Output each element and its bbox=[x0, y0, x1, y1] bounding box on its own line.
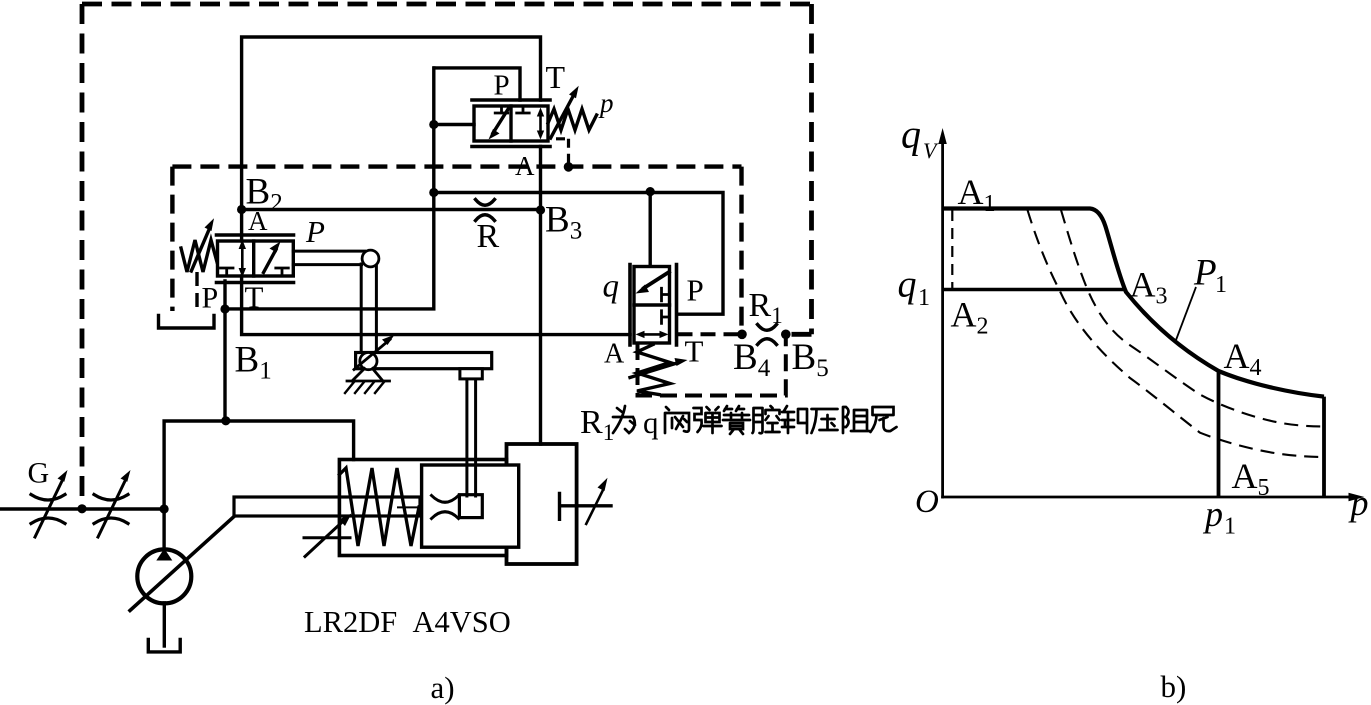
pin joint bbox=[362, 250, 379, 267]
svg-text:P: P bbox=[305, 214, 325, 249]
wire p-valve P loop bbox=[435, 68, 521, 125]
svg-text:LR2DF A4VSO: LR2DF A4VSO bbox=[304, 605, 511, 639]
node junction p-valve left port bbox=[429, 120, 438, 129]
p valve right cell arrow bbox=[539, 113, 542, 134]
svg-text:q: q bbox=[901, 112, 921, 157]
q valve body rails bbox=[630, 265, 677, 346]
p valve blocked ports bbox=[495, 106, 529, 113]
lever rod cap bbox=[460, 369, 482, 379]
throttle G2 bbox=[94, 495, 128, 524]
svg-text:q: q bbox=[603, 269, 620, 305]
svg-text:1: 1 bbox=[1215, 272, 1227, 298]
graph dashed vertical at A1 bbox=[951, 210, 953, 289]
q valve blocked ports bbox=[662, 288, 670, 323]
svg-text:P: P bbox=[494, 70, 510, 102]
p valve body rails bbox=[472, 100, 550, 147]
left valve right cell blocked port bbox=[276, 268, 289, 276]
p valve left cell relief arrow bbox=[493, 109, 509, 134]
p valve pilot dashed to drain line bbox=[556, 139, 569, 167]
graph flow-pressure curve solid bbox=[943, 209, 1324, 397]
mechanical rod from left valve to pin bbox=[293, 251, 364, 265]
p valve spring bbox=[548, 109, 597, 130]
svg-text:A: A bbox=[248, 206, 268, 236]
wire control line y192 to q valve P loop bbox=[434, 193, 723, 315]
wire G line bbox=[0, 507, 164, 510]
node B3 bbox=[536, 205, 545, 214]
q valve bottom cell arrow bbox=[641, 333, 663, 336]
node G line junction bbox=[160, 504, 169, 513]
tank under pump bbox=[148, 640, 180, 652]
piston position adjuster in right chamber bbox=[560, 494, 612, 520]
swashplate rod bbox=[234, 497, 420, 516]
left valve (stroke regulator) body rails bbox=[217, 235, 294, 283]
cylinder spring chamber bbox=[339, 460, 506, 556]
q valve spring adjust arrow bbox=[630, 363, 677, 378]
node junction p-valve drain on dashed line bbox=[564, 162, 574, 172]
node P port junction bbox=[220, 304, 229, 313]
hanzi ni bbox=[871, 407, 897, 432]
cylinder piston chamber bbox=[507, 444, 577, 564]
node junction control line bbox=[429, 188, 438, 197]
svg-text:O: O bbox=[915, 484, 939, 520]
wire riser to q valve top bbox=[649, 192, 652, 265]
pivot ground support bbox=[347, 369, 390, 382]
graph q1 horizontal line bbox=[943, 288, 1125, 292]
left valve box bbox=[218, 241, 294, 276]
svg-text:A: A bbox=[604, 339, 625, 370]
orifice R on B2-B3 line bbox=[476, 200, 495, 221]
node drain-G junction bbox=[77, 504, 86, 513]
svg-text:G: G bbox=[28, 457, 50, 490]
graph dashed curve lower bbox=[1061, 210, 1324, 427]
wire pilot P line to vertical riser bbox=[225, 68, 434, 309]
node B5 bbox=[781, 330, 791, 340]
hanzi tan bbox=[694, 407, 722, 433]
hanzi qiang bbox=[753, 406, 780, 433]
node B1 bottom junction bbox=[221, 416, 230, 425]
node junction q-valve riser bbox=[646, 187, 655, 196]
left valve left cell blocked port bbox=[221, 268, 234, 276]
left valve spring bbox=[181, 240, 217, 272]
svg-text:P: P bbox=[1193, 253, 1217, 294]
pump P1 variable displacement bbox=[137, 549, 191, 603]
wire left valve P port down to B1 node bbox=[223, 281, 226, 421]
left valve drain dashed to tank bbox=[195, 272, 198, 313]
p valve spring adjust arrow bbox=[551, 95, 574, 139]
left valve left cell arrow bbox=[241, 246, 244, 272]
hanzi zu bbox=[843, 407, 869, 433]
svg-text:T: T bbox=[685, 334, 704, 369]
dashed spring-cavity box of q valve bbox=[638, 338, 786, 396]
tank under left valve bbox=[159, 316, 215, 329]
wire pump riser and link to cylinder bbox=[164, 421, 354, 549]
q valve box bbox=[634, 267, 670, 344]
graph p1 vertical line bbox=[1217, 373, 1221, 498]
svg-text:a): a) bbox=[431, 670, 455, 705]
svg-text:T: T bbox=[546, 59, 566, 95]
hanzi huang bbox=[723, 406, 750, 434]
rod vertical to pivot bbox=[361, 264, 376, 355]
node B2 bbox=[237, 205, 246, 214]
dashed pilot line q-valve T to node B4 bbox=[678, 332, 739, 336]
hanzi wei bbox=[613, 406, 635, 433]
svg-text:p: p bbox=[598, 88, 614, 118]
hanzi ya bbox=[812, 409, 838, 433]
svg-text:T: T bbox=[245, 280, 264, 315]
feedback linkage arrow bbox=[354, 340, 390, 370]
svg-text:R: R bbox=[477, 218, 500, 255]
node B4 bbox=[737, 330, 747, 340]
wire B2 to B3 bbox=[242, 208, 541, 211]
hanzi fa bbox=[665, 407, 689, 433]
svg-text:p: p bbox=[1202, 494, 1223, 534]
inner dashed pilot-drain line bbox=[172, 167, 741, 330]
throttle G1 bbox=[31, 495, 65, 524]
svg-text:q: q bbox=[643, 405, 659, 440]
orifice R1 between B4 and B5 bbox=[758, 325, 777, 345]
hanzi xie bbox=[782, 406, 807, 433]
svg-text:p: p bbox=[1348, 483, 1369, 523]
outer dashed drain enclosure bbox=[82, 4, 812, 509]
left valve right cell flow arrow bbox=[264, 250, 277, 273]
piston bbox=[422, 465, 519, 547]
wire B3 vertical: p-valve A down to piston chamber bbox=[539, 147, 542, 445]
svg-text:1: 1 bbox=[918, 285, 930, 311]
p valve box bbox=[474, 106, 548, 141]
damping orifice in piston bbox=[432, 496, 459, 519]
graph P1 leader line bbox=[1176, 287, 1196, 340]
svg-text:1: 1 bbox=[1224, 514, 1236, 540]
wire left valve T port to q valve A port bbox=[242, 276, 630, 335]
q valve spring bbox=[637, 345, 670, 395]
cylinder bias spring bbox=[339, 468, 419, 546]
wire top loop B2 to p-valve T bbox=[242, 37, 541, 210]
rod end block bbox=[459, 495, 482, 518]
svg-text:b): b) bbox=[1161, 669, 1187, 704]
graph axes bbox=[943, 137, 1356, 497]
wire B2 to left valve A port bbox=[240, 210, 243, 242]
svg-text:P: P bbox=[687, 273, 704, 308]
feedback rod down to piston bbox=[467, 379, 476, 496]
svg-text:q: q bbox=[898, 264, 917, 306]
graph right boundary vertical bbox=[1322, 397, 1326, 497]
left valve spring adjust arrow bbox=[191, 229, 209, 272]
q valve top cell relief arrow bbox=[644, 272, 669, 288]
spring preload adjuster arrow bbox=[304, 518, 350, 557]
feedback lever bbox=[356, 353, 492, 369]
svg-text:P: P bbox=[202, 282, 219, 315]
lever pivot bbox=[360, 353, 377, 370]
graph dashed curve upper bbox=[1028, 210, 1324, 457]
svg-text:A: A bbox=[515, 151, 535, 181]
